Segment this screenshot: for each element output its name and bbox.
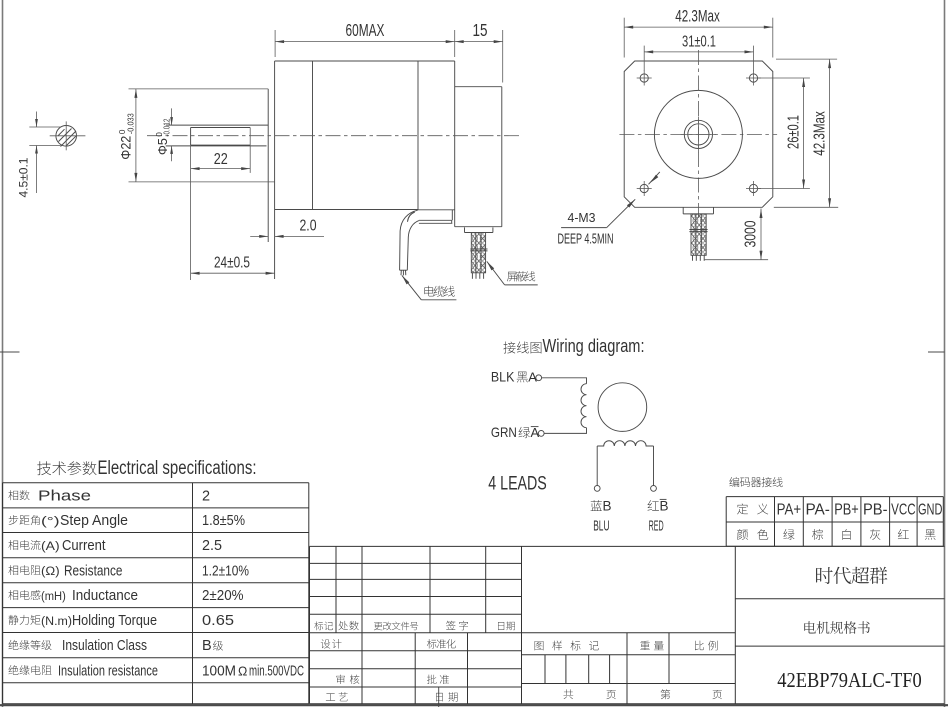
shaft circle crosshair (681, 133, 717, 135)
spec row: 相电感(mH) Inductance = 2±20% (8, 590, 18, 600)
signature block columns (361, 633, 363, 704)
dim 15 (455, 41, 503, 43)
spec row: 静力矩(N.m) Holding Torque = 0.65 (9, 615, 19, 625)
frame centering tick right (928, 351, 945, 353)
svg-text:26±0.1: 26±0.1 (786, 115, 803, 149)
svg-text:(A): (A) (41, 541, 60, 553)
spec table title 技术参数 (37, 461, 51, 475)
svg-text:B: B (660, 499, 669, 514)
spec row: 相电阻(Ω) Resistance = 1.2±10% (8, 565, 18, 575)
wire to terminal B̄ (653, 446, 655, 486)
svg-text:4-M3: 4-M3 (568, 210, 596, 225)
svg-text:Electrical specifications:: Electrical specifications: (98, 458, 257, 479)
svg-text:-0.033: -0.033 (126, 113, 136, 134)
label 共 页 (563, 689, 573, 699)
dim 3000 (760, 209, 762, 260)
dim 31±0.1 (644, 51, 753, 53)
shielded braid side view (471, 233, 485, 273)
dim Φ22-0.033 (135, 89, 137, 182)
signature labels 审核/批准 (336, 675, 345, 684)
front braid collar (689, 229, 707, 231)
svg-text:Inductance: Inductance (72, 588, 138, 604)
svg-text:min.500VDC: min.500VDC (249, 663, 304, 679)
wire to terminal B (596, 446, 598, 486)
front view centerlines (619, 133, 777, 135)
title block left border (309, 546, 311, 703)
label 图样标记 (535, 641, 544, 650)
shaft circle inner (688, 124, 709, 145)
encoder table row 定义 (737, 503, 748, 514)
svg-text:Φ22: Φ22 (118, 136, 134, 160)
svg-text:Phase: Phase (38, 488, 91, 504)
svg-text:GRN: GRN (491, 424, 517, 440)
shaft step outline top (166, 124, 268, 126)
dim 26±0.1 extension lines (757, 77, 810, 79)
svg-text:Step Angle: Step Angle (60, 513, 128, 529)
terminal A (536, 375, 542, 381)
label 电缆线 (424, 286, 434, 297)
dim 60MAX (275, 41, 455, 43)
svg-text:31±0.1: 31±0.1 (682, 34, 716, 51)
svg-text:Ω: Ω (238, 664, 247, 678)
svg-text:PA-: PA- (805, 502, 830, 519)
label 4-M3 DEEP 4.5MIN leader (607, 199, 636, 227)
dim 42.3Max top (624, 26, 773, 28)
shaft step outline bottom (166, 145, 267, 147)
rear housing outline (455, 86, 502, 88)
spec row: 绝缘电阻 Insulation resistance = 100MΩmin.500VDC (8, 665, 18, 675)
mounting holes (640, 74, 648, 82)
spec row: 相电流(A) Current = 2.5 (8, 540, 18, 550)
dim 24±0.5 (191, 272, 275, 274)
svg-text:Resistance: Resistance (64, 563, 123, 579)
signature block rows (310, 650, 522, 652)
svg-text:(Ω): (Ω) (41, 566, 60, 578)
company box 时代超群 (735, 598, 944, 600)
dim 42.3Max right extension lines (776, 58, 837, 60)
electrical specifications table grid (3, 482, 309, 484)
shaft section hatching (59, 129, 72, 142)
title block bottom border (310, 703, 945, 705)
svg-text:BLK: BLK (491, 369, 515, 385)
svg-text:(mH): (mH) (41, 591, 66, 603)
svg-text:100M: 100M (202, 663, 236, 679)
svg-text:3000: 3000 (743, 220, 760, 247)
front braid wire strands (692, 255, 694, 260)
shaft section centerlines (50, 135, 86, 137)
label 比例 (695, 641, 704, 651)
dim Φ5-0.012 (171, 108, 173, 125)
encoder wiring table grid (726, 496, 943, 498)
dim 22 (191, 168, 251, 170)
svg-text:2±20%: 2±20% (202, 588, 244, 604)
svg-text:Holding Torque: Holding Torque (72, 613, 157, 629)
boss bottom outline / dim Φ22 extension (129, 181, 275, 183)
braid boss under rear housing (464, 227, 466, 232)
svg-text:Wiring diagram:: Wiring diagram: (543, 336, 645, 356)
svg-text:2.0: 2.0 (300, 218, 317, 235)
terminal Ā (538, 431, 544, 437)
dim 26±0.1 (803, 78, 805, 189)
shaft circle outer (684, 120, 712, 148)
svg-text:Current: Current (62, 538, 106, 554)
drawing frame bottom border (0, 704, 948, 706)
front cable exit boss (682, 207, 684, 214)
svg-text:2: 2 (202, 488, 210, 504)
encoder wiring label 编码器接线 (729, 477, 739, 487)
svg-text:1.2±10%: 1.2±10% (202, 563, 249, 579)
phase A coil (581, 384, 587, 428)
svg-text:2.5: 2.5 (202, 538, 222, 554)
label 第 页 (661, 689, 671, 699)
svg-text:24±0.5: 24±0.5 (214, 255, 250, 272)
dim 3000 extension line (705, 259, 769, 261)
product box 电机规格书 (735, 645, 944, 647)
drawing frame right border (944, 0, 946, 707)
spec row: 绝缘等级 Insulation Class = B级 (8, 640, 18, 650)
dim 22 extension lines (190, 145, 192, 280)
cable end cap (400, 269, 408, 271)
revision table rows (310, 562, 522, 564)
motor body lamination lines (312, 61, 314, 210)
svg-text:15: 15 (473, 20, 488, 40)
svg-text:60MAX: 60MAX (346, 20, 385, 40)
label 红B̄ (648, 500, 659, 510)
spec row: 步距角(°) Step Angle = 1.8±5% (9, 515, 19, 525)
middle block 图样标记/重量/比例 grid (522, 654, 736, 656)
signature labels 设计/标准化 (321, 639, 330, 648)
svg-text:VCC: VCC (891, 502, 916, 519)
dim 2.0 (250, 235, 268, 237)
svg-text:PA+: PA+ (777, 502, 802, 519)
label 屏蔽线 leader (487, 261, 494, 270)
shaft cross-section circle with flat (56, 126, 77, 147)
rotor circle (598, 383, 647, 432)
svg-text:42EBP79ALC-TF0: 42EBP79ALC-TF0 (777, 668, 922, 692)
frame centering tick left (0, 351, 20, 353)
svg-text:GND: GND (918, 502, 943, 519)
pilot circle Φ22 (654, 90, 742, 178)
svg-text:PB+: PB+ (834, 502, 859, 519)
svg-text:Φ5: Φ5 (156, 138, 170, 155)
boss top outline / dim Φ22 extension (129, 88, 269, 90)
label 蓝B (591, 500, 602, 511)
shaft outline (191, 127, 251, 129)
front view square flange with chamfered corners (624, 61, 773, 207)
svg-text:42.3Max: 42.3Max (812, 111, 829, 156)
label 屏蔽线 (507, 272, 517, 282)
cable gland box under motor body (418, 209, 455, 211)
front shielded braid (691, 214, 706, 255)
svg-text:42.3Max: 42.3Max (675, 7, 720, 26)
svg-text:Insulation Class: Insulation Class (62, 638, 147, 654)
cable curving out of gland (400, 210, 418, 270)
signature labels 工艺/日期 (326, 693, 335, 700)
wiring diagram title 接线图 (503, 342, 515, 354)
label 电缆线 leader (402, 275, 409, 284)
spec row: 相数 Phase = 2 (8, 490, 18, 500)
svg-text:0.65: 0.65 (202, 613, 234, 629)
title block top border (310, 545, 945, 547)
wire A to coil (542, 378, 587, 384)
dim 4.5±0.1 extension lines (29, 126, 60, 128)
motor body side view outline (275, 60, 455, 62)
front boss face line (267, 89, 269, 242)
cable wire strands (400, 270, 402, 275)
label 重量 (640, 641, 650, 650)
dim 4.5±0.1 dimension line and arrows (36, 112, 38, 128)
dim 60MAX extension lines (274, 30, 276, 57)
svg-text:4.5±0.1: 4.5±0.1 (19, 158, 31, 198)
frame centering tick bottom (438, 687, 440, 707)
svg-text:Insulation resistance: Insulation resistance (58, 663, 158, 679)
svg-text:22: 22 (214, 151, 228, 168)
dim 31±0.1 extension lines (643, 46, 645, 71)
encoder table row 颜色 (737, 529, 748, 540)
svg-text:(°): (°) (41, 516, 60, 528)
svg-text:1.8±5%: 1.8±5% (202, 513, 245, 529)
side view centerline (147, 135, 520, 137)
svg-text:PB-: PB- (863, 502, 888, 519)
svg-text:4 LEADS: 4 LEADS (488, 474, 547, 495)
dim Φ5-0.012 extension lines (166, 124, 172, 126)
terminal B (594, 486, 600, 492)
dim 42.3Max top extension lines (623, 18, 625, 58)
terminal B̄ (651, 486, 657, 492)
svg-text:B: B (202, 638, 212, 654)
revision table columns (335, 546, 337, 632)
svg-text:B: B (603, 499, 612, 514)
svg-text:(N.m): (N.m) (41, 616, 72, 628)
middle block small cells (544, 655, 546, 684)
wire Ā from coil (544, 428, 586, 434)
svg-text:DEEP 4.5MIN: DEEP 4.5MIN (558, 232, 614, 248)
braid collar (470, 248, 487, 250)
svg-text:BLU: BLU (593, 518, 609, 535)
phase B coil (597, 441, 653, 446)
svg-text:RED: RED (649, 518, 664, 535)
revision header 标记 处数 更改文件号 签字 日期 (314, 621, 323, 630)
svg-text:-0.012: -0.012 (162, 118, 171, 136)
braid wire strands (471, 273, 473, 279)
drawing frame left border (2, 0, 4, 707)
dim 42.3Max right (829, 59, 831, 207)
